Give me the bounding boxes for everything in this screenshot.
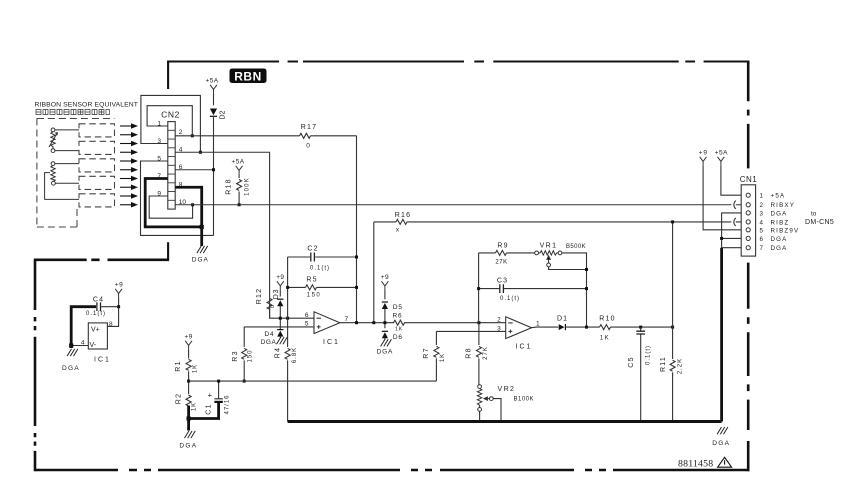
capacitor C3 [479, 288, 587, 290]
svg-text:D4: D4 [265, 331, 275, 338]
capacitor C4 [101, 306, 118, 308]
node feedback vertical on output [585, 326, 588, 329]
sensor dashed box outline [37, 119, 115, 228]
svg-text:+5A: +5A [232, 159, 245, 166]
resistor R8 [476, 346, 481, 357]
svg-text:DGA: DGA [771, 245, 788, 252]
node C3 left [477, 287, 480, 290]
svg-text:DGA: DGA [192, 257, 209, 264]
wire pin4 stub [71, 345, 88, 347]
svg-text:DGA: DGA [771, 210, 788, 217]
wire loop CN2 pin3-pin4 [141, 95, 201, 152]
svg-text:C1: C1 [206, 403, 213, 414]
svg-text:RIBBON SENSOR EQUIVALENT: RIBBON SENSOR EQUIVALENT [35, 102, 139, 109]
capacitor C2 [288, 256, 357, 258]
resistor R17 [300, 133, 311, 138]
node pin4 junction [199, 151, 202, 154]
svg-text:R17: R17 [301, 124, 317, 131]
node R1/R2 [187, 380, 190, 383]
warning triangle [718, 457, 732, 467]
wire R18 to pin10 line [238, 192, 240, 205]
svg-text:+5A: +5A [206, 78, 219, 85]
capacitor C5 [640, 327, 642, 421]
svg-text:R9: R9 [497, 243, 508, 250]
wire RS2 top to loop3 [55, 163, 79, 165]
svg-text:RBN: RBN [234, 69, 262, 83]
svg-text:IC1: IC1 [516, 344, 533, 351]
sensor box title JP (glyph placeholders) [36, 110, 109, 115]
svg-text:R7: R7 [423, 347, 430, 358]
svg-text:0.1(t): 0.1(t) [646, 345, 652, 365]
node C4/+9 [117, 305, 120, 308]
svg-text:100K: 100K [245, 177, 251, 196]
svg-text:DGA: DGA [712, 440, 730, 447]
svg-text:V-: V- [90, 342, 97, 349]
svg-text:R8: R8 [466, 347, 473, 358]
resistor R5 feedback [288, 286, 357, 288]
sensor finger loop pins3-4 [79, 141, 115, 154]
svg-text:IC1: IC1 [94, 357, 111, 364]
svg-text:1K: 1K [395, 327, 403, 333]
node R11 top on RIBZ line [671, 220, 674, 223]
CN1 pin circles 1-7 [746, 193, 750, 197]
svg-text:2: 2 [760, 202, 764, 209]
ground DGA for R2/C1 [185, 431, 196, 438]
resistor R10 [600, 325, 611, 330]
resistor R6 [394, 320, 405, 325]
wire +9 to CN1 pin5 [703, 166, 746, 230]
wire R2 bottom thick to ground [187, 406, 190, 431]
svg-text:C4: C4 [93, 297, 104, 304]
node thick pin4/ground [69, 343, 73, 347]
border outline: top box left edge [167, 61, 169, 260]
svg-text:R1: R1 [175, 360, 182, 371]
capacitor C1 electrolytic [218, 381, 220, 398]
node wiper junction [585, 268, 588, 271]
svg-text:150: 150 [307, 293, 322, 299]
sensor element RS2 [51, 162, 55, 166]
wire thick ground drop from pin7 loop [200, 227, 203, 246]
wire op1 pin5 line from R3 [244, 326, 314, 328]
wire op2 pin3 line from R7 [436, 330, 505, 332]
node R8 top on op2 pin2 line [477, 321, 480, 324]
wire +9 to D3 [279, 290, 281, 296]
wire D5 to output line to D6 [384, 309, 386, 329]
hook at CN1 pin2 [734, 201, 746, 209]
svg-text:6: 6 [305, 312, 309, 319]
border outline: bottom edge dashed [35, 469, 749, 472]
svg-text:2.2K: 2.2K [678, 358, 684, 374]
node R18/pin10 junction [238, 203, 241, 206]
wire RS1 top to loop1 [55, 129, 79, 131]
border outline: jog at y=259 [34, 258, 169, 261]
svg-text:VR1: VR1 [540, 243, 558, 250]
CN1 pin numbers and net labels [760, 193, 800, 253]
svg-text:47/16: 47/16 [225, 394, 231, 414]
svg-text:DGA: DGA [261, 339, 277, 346]
ground DGA for D4 [277, 337, 288, 344]
diode D2 [210, 109, 217, 117]
resistor R1 [186, 359, 191, 370]
svg-text:B100K: B100K [514, 397, 535, 403]
ground DGA for D5/D6 [381, 339, 392, 346]
wire +9 to R1 [188, 350, 190, 359]
svg-text:C2: C2 [307, 246, 318, 253]
node R3 bottom [243, 380, 246, 383]
svg-text:+9: +9 [699, 150, 708, 157]
svg-text:R2: R2 [176, 393, 183, 404]
wire loop CN2 pin5 to +5A/D2 net [141, 161, 214, 235]
svg-text:+9: +9 [184, 334, 192, 341]
svg-text:1: 1 [760, 193, 764, 200]
wire thick to C1 bottom [189, 402, 219, 418]
wire R7 column [435, 331, 437, 381]
sensor finger loop pins5-6 [79, 159, 115, 172]
potentiometer VR2 [478, 385, 482, 389]
svg-text:DGA: DGA [377, 349, 394, 356]
svg-text:27K: 27K [483, 346, 489, 360]
resistor R12 [267, 298, 272, 309]
svg-text:R11: R11 [660, 356, 667, 372]
wire node line y381 from R1 to R7 [189, 380, 437, 382]
node pin6/D2 junction [212, 168, 215, 171]
border outline: top edge with dash breaks [167, 60, 749, 62]
svg-text:DGA: DGA [771, 236, 788, 243]
diode D1 [559, 324, 566, 330]
svg-text:+9: +9 [115, 282, 123, 289]
svg-text:+5A: +5A [715, 150, 728, 157]
svg-text:3: 3 [497, 325, 501, 332]
hook at CN1 pin4 [734, 218, 746, 226]
svg-text:D5: D5 [393, 304, 403, 311]
wire D4 to ground [279, 336, 281, 338]
resistor R7 [434, 346, 439, 357]
svg-text:R12: R12 [256, 288, 263, 304]
svg-text:7: 7 [760, 245, 764, 252]
diode D5 [382, 302, 388, 309]
wire op2 output to D1 [532, 326, 559, 329]
svg-text:+9: +9 [276, 274, 284, 281]
wire R12 bottom corner into op1 pin6 line [270, 309, 314, 318]
node R16 vertical on output line [372, 321, 375, 324]
svg-text:5: 5 [760, 227, 764, 234]
connector CN1 body [741, 185, 755, 256]
resistor R9 [479, 252, 535, 254]
node VR2 on bus [478, 420, 481, 423]
resistor R18 [237, 180, 242, 191]
resistor R11 [670, 360, 675, 371]
svg-text:D2: D2 [220, 110, 227, 119]
svg-text:D1: D1 [557, 316, 568, 323]
svg-text:DGA: DGA [179, 443, 197, 450]
resistor R3 [242, 348, 247, 359]
svg-text:2: 2 [179, 129, 183, 136]
thick DGA bus [288, 420, 722, 423]
svg-text:RIBZ9V: RIBZ9V [771, 227, 800, 234]
wire R9/C3 left vertical [478, 253, 480, 323]
svg-text:27K: 27K [495, 260, 507, 266]
node R11 on DGA bus [671, 420, 674, 423]
wire C4 left thick to pin4/ground [71, 307, 96, 348]
arrows to CN2 pins [120, 123, 138, 128]
svg-text:7: 7 [345, 316, 349, 323]
wire CN2 pin4 line to R12 column [175, 152, 269, 318]
node feedback vertical on pin6 line [286, 317, 289, 320]
node C2 right on R17 vertical [355, 256, 358, 259]
svg-text:R10: R10 [599, 316, 615, 323]
wire loop CN2 pin1-pin2 [147, 106, 192, 136]
svg-text:1K: 1K [600, 336, 610, 342]
wire loop CN2 pin9-pin10 [149, 196, 192, 218]
wire R8 column [478, 323, 480, 385]
wire RS2 wiper tap to loop5 [45, 173, 79, 200]
svg-text:1K: 1K [193, 364, 199, 373]
wire D1 to R10 [565, 326, 599, 328]
node R5 right on R17 vertical [355, 286, 358, 289]
wire R3 column [243, 327, 245, 381]
wire R16 vertical from output node [373, 222, 375, 323]
svg-text:8811458: 8811458 [678, 459, 713, 470]
potentiometer VR1 [535, 251, 539, 255]
ground DGA below CN2 [197, 246, 208, 253]
sensor finger loop pins1-2 [79, 124, 115, 137]
diode D6 [382, 331, 388, 338]
svg-text:IC1: IC1 [323, 339, 340, 346]
svg-text:1K: 1K [192, 402, 198, 411]
svg-text:to: to [811, 211, 817, 218]
wire VR1 right to feedback vertical [562, 253, 587, 327]
wire D3 to pin6 node and down to D4 [279, 306, 281, 330]
node R11 mid [671, 326, 674, 329]
node D3/D4 on pin6 line [279, 317, 282, 320]
svg-text:CN2: CN2 [161, 110, 180, 120]
wire CN2 pin10 RIBXY line across to CN1 pin2 [175, 204, 731, 206]
svg-text:+5A: +5A [771, 193, 786, 200]
wire CN2 pin2 line to R17 [175, 135, 356, 137]
svg-text:4: 4 [760, 219, 764, 226]
op-amp U1a IC1 [314, 312, 340, 334]
svg-text:6.8K: 6.8K [292, 347, 298, 363]
svg-text:0.1(t): 0.1(t) [310, 266, 330, 272]
svg-text:3: 3 [760, 210, 764, 217]
node C5 top [639, 326, 642, 329]
svg-text:0.1(t): 0.1(t) [500, 296, 520, 302]
wire +9 down to pin8 [107, 298, 118, 327]
svg-text:C3: C3 [497, 277, 508, 284]
resistor R4 [285, 348, 290, 359]
wire thick CN1 DGA vertical [720, 248, 723, 422]
RBN label [230, 69, 267, 84]
wire D6 to ground [384, 338, 386, 340]
node thick junction [200, 225, 204, 229]
node thick R2/C1 [187, 416, 191, 420]
svg-text:R18: R18 [226, 178, 233, 194]
wire +5A to D2 [213, 94, 215, 106]
svg-text:C5: C5 [628, 356, 635, 367]
svg-text:6: 6 [760, 236, 764, 243]
wire +5A to R18 [238, 175, 240, 178]
svg-text:R5: R5 [306, 277, 317, 284]
node C5 on DGA bus [639, 420, 642, 423]
wire CN1 pin3/6/7 DGA links [722, 213, 747, 248]
wire feedback vertical C2/R5 to R4 to bus [287, 257, 289, 422]
node pin6 DGA [720, 237, 723, 240]
sensor finger loop pins7-8 [79, 176, 115, 189]
svg-text:RIBXY: RIBXY [771, 202, 796, 209]
ground DGA for IC1 power [67, 349, 78, 356]
svg-text:+9: +9 [381, 274, 389, 281]
svg-text:R4: R4 [275, 347, 282, 358]
svg-text:CN1: CN1 [740, 175, 758, 184]
IC1 power block [88, 323, 107, 349]
wire +5A to CN1 pin1 [721, 166, 746, 196]
diode D3 [277, 299, 283, 306]
svg-text:0: 0 [306, 143, 310, 150]
diode D4 [277, 330, 283, 337]
node output/R17 vertical [355, 321, 358, 324]
svg-text:B500K: B500K [566, 244, 586, 250]
svg-text:D3: D3 [273, 289, 280, 300]
wire R1 to node line [188, 371, 190, 394]
svg-text:DGA: DGA [62, 365, 80, 372]
svg-text:VR2: VR2 [498, 386, 516, 393]
node D5/D6 on output line [383, 321, 386, 324]
svg-text:1K: 1K [440, 353, 446, 362]
sensor finger loop pins9-10 [79, 194, 115, 207]
border outline: left edge dashed [34, 260, 37, 471]
wire R17 output down to op-amp1 output node [356, 136, 358, 323]
wire RS2 bottom to loop4 [55, 182, 79, 184]
wire R10 to R11 node [611, 326, 673, 328]
svg-text:8: 8 [109, 321, 113, 328]
connector CN2 body [168, 122, 175, 210]
node R5 left [286, 286, 289, 289]
node pin2 junction [191, 134, 194, 137]
svg-text:2: 2 [497, 317, 501, 324]
node pin10 junction [191, 203, 194, 206]
wire op1 output line [340, 322, 506, 324]
svg-text:R16: R16 [395, 212, 411, 219]
svg-text:V+: V+ [91, 327, 100, 334]
node C3 right [585, 287, 588, 290]
svg-text:R6: R6 [393, 312, 403, 319]
svg-text:150: 150 [248, 349, 254, 362]
resistor R16 on RIBZ line [374, 221, 732, 223]
wire RS1 bottom to loop2 [55, 150, 79, 152]
op-amp U1b IC1 [506, 317, 532, 339]
border outline: right edge dashed [747, 61, 750, 472]
svg-text:DM-CN5: DM-CN5 [805, 219, 834, 226]
svg-text:RIBZ: RIBZ [771, 219, 790, 226]
wire loop CN2 pin7-pin8 thick [145, 179, 202, 227]
wire CN2 pin6 stub [175, 169, 213, 171]
svg-text:R3: R3 [232, 350, 239, 361]
resistor R2 [186, 395, 191, 406]
svg-text:+: + [208, 391, 213, 400]
svg-text:0.1(t): 0.1(t) [86, 311, 106, 317]
wire +9 to D5 [384, 290, 386, 299]
ground DGA at bus right [717, 427, 728, 434]
wire D2 down to pin5/6 net [213, 116, 215, 235]
svg-text:1: 1 [536, 321, 540, 328]
svg-text:D6: D6 [393, 334, 403, 341]
sensor element RS1 [51, 128, 55, 132]
wire R11 column from RIBZ line to bus [672, 222, 674, 422]
